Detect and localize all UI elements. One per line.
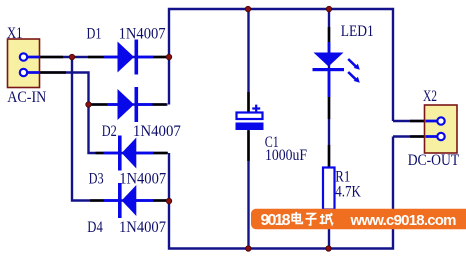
junction node D4 anode / neg rail	[166, 198, 171, 203]
wire X1 pin1 to D1 anode (net AC1)	[40, 56, 167, 58]
wire C1 branch vertical upper	[247, 9, 249, 112]
pin X1-2 black pin segment	[40, 71, 66, 74]
diode D3 leads	[104, 152, 154, 155]
pin X2-2 black segment	[410, 135, 426, 138]
pin D4 cathode black segment	[90, 199, 104, 202]
wire X2 pin1 horizontal	[393, 120, 437, 122]
capacitor C1 plus sign	[252, 105, 260, 113]
connector X1 pin 1 circle	[20, 53, 27, 60]
svg-text:1N4007: 1N4007	[119, 25, 166, 42]
pin D1 cathode black segment	[153, 56, 167, 59]
svg-text:X1: X1	[7, 25, 23, 42]
watermark glyph cheng (city)	[320, 213, 333, 224]
LED LED1 emission arrow 2	[348, 72, 355, 79]
connector X2 body	[425, 105, 458, 153]
wire X2 pin2 horizontal	[393, 135, 437, 137]
svg-text:D1: D1	[87, 25, 102, 42]
junction node LED1 top rail	[326, 6, 331, 11]
connector X1 pin 2 circle	[20, 69, 27, 76]
svg-text:1000uF: 1000uF	[265, 147, 307, 164]
svg-text:DC-OUT: DC-OUT	[408, 152, 460, 169]
LED LED1 emission arrow 1	[348, 59, 355, 66]
capacitor C1 top plate	[237, 113, 263, 120]
connector X1 pin leads	[27, 57, 40, 73]
junction node C1 bottom rail	[246, 246, 251, 251]
pin X2-1 black segment	[410, 120, 426, 123]
svg-text:LED1: LED1	[341, 23, 374, 40]
connector X2 pin leads	[426, 121, 439, 137]
svg-text:AC-IN: AC-IN	[7, 89, 46, 106]
svg-text:9018: 9018	[261, 212, 291, 229]
pin D1 anode black segment	[88, 56, 104, 59]
junction node C1 top rail	[245, 6, 250, 11]
wire negative rail: D3/D4 anode vertical, bottom bus, riser to X2 pin2	[169, 137, 393, 249]
LED LED1 leads	[328, 42, 331, 97]
diode D1 body	[118, 42, 135, 73]
svg-text:1N4007: 1N4007	[119, 219, 166, 236]
pin D4 anode black segment	[153, 199, 167, 202]
pin D3 cathode black segment	[96, 152, 105, 155]
diode D4 leads	[104, 199, 153, 202]
diode D2 leads	[107, 103, 153, 106]
LED LED1 body	[314, 53, 344, 67]
svg-text:www.c9018.com: www.c9018.com	[350, 212, 457, 229]
svg-text:D2: D2	[102, 123, 117, 140]
diode D4 body	[122, 185, 137, 216]
capacitor C1 bottom plate	[236, 123, 264, 131]
diode D3 body	[122, 138, 137, 169]
diode D1 leads	[104, 56, 153, 59]
pin R1 top black segment	[328, 145, 331, 167]
svg-text:D3: D3	[89, 170, 104, 187]
resistor R1 body	[323, 168, 335, 210]
svg-text:4.7K: 4.7K	[335, 183, 361, 200]
junction node D1 cathode / top rail	[166, 54, 171, 59]
wire C1 branch vertical lower	[247, 130, 249, 249]
wire LED1/R1 branch vertical	[328, 9, 330, 249]
svg-text:X2: X2	[423, 88, 437, 105]
watermark glyph dian (electric)	[292, 212, 302, 224]
watermark glyph zi (child)	[305, 214, 316, 225]
wire D2 row horizontal	[89, 103, 168, 105]
pin C1 top black segment	[247, 92, 250, 112]
wire AC1 vertical from junction down to D4 row	[72, 57, 167, 201]
pin X1-1 black pin segment	[40, 56, 63, 59]
connector X2 pin 2 circle	[437, 133, 444, 140]
junction node R1 bottom rail	[326, 246, 331, 251]
svg-text:1N4007: 1N4007	[119, 170, 166, 187]
wire positive rail: top bus from D1/D2 cathode vertical to X2 pin1 drop	[169, 9, 393, 121]
connector X1 body	[8, 39, 40, 88]
wire X1 pin2 horizontal then down (net AC2)	[40, 73, 168, 154]
pin C1 bottom black segment	[247, 131, 250, 162]
svg-text:1N4007: 1N4007	[133, 123, 181, 140]
svg-text:D4: D4	[87, 219, 103, 236]
pin LED1 top black segment	[328, 27, 331, 42]
diode D2 body	[118, 89, 135, 120]
watermark banner	[251, 209, 466, 229]
junction node AC1 at X1 pin1	[69, 54, 74, 59]
pin D2 cathode black segment	[152, 103, 167, 106]
pin D3 anode black segment	[153, 152, 168, 155]
junction node AC2 / D2 anode	[86, 102, 91, 107]
pin D2 anode black segment	[90, 103, 107, 106]
connector X2 pin 1 circle	[437, 117, 444, 124]
pin LED1 bottom black segment	[328, 97, 331, 119]
